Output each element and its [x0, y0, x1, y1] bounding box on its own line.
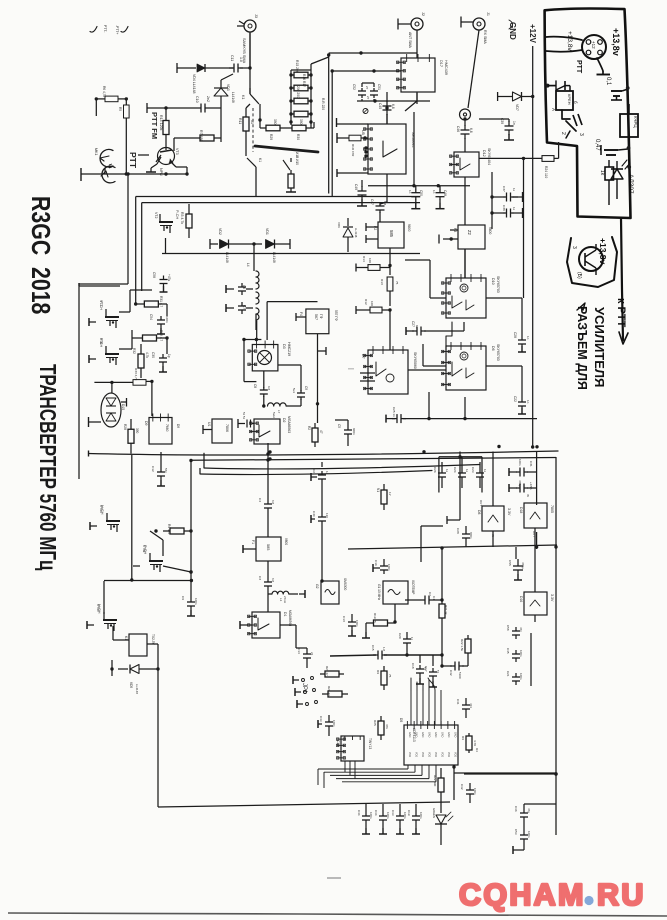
svg-text:C20: C20	[398, 633, 402, 639]
svg-text:C46: C46	[456, 126, 460, 132]
svg-text:ANT SMA: ANT SMA	[408, 32, 412, 49]
svg-text:SKY65060: SKY65060	[413, 352, 417, 369]
svg-text:CQHAM: CQHAM	[459, 878, 586, 912]
svg-text:УСИЛИТЕЛЯ: УСИЛИТЕЛЯ	[592, 307, 607, 387]
svg-text:C37: C37	[502, 186, 506, 192]
svg-text:R33 4,7k: R33 4,7k	[134, 368, 138, 381]
svg-text:390: 390	[135, 428, 139, 434]
svg-text:VDD: VDD	[434, 752, 437, 757]
svg-text:R39 4.7: R39 4.7	[159, 330, 163, 341]
svg-text:C30: C30	[151, 352, 155, 358]
svg-text:R25: R25	[373, 720, 377, 726]
svg-text:1У: 1У	[388, 492, 392, 496]
svg-text:100n: 100n	[527, 831, 531, 838]
svg-text:1n: 1n	[483, 469, 487, 473]
svg-text:L1: L1	[279, 598, 283, 602]
svg-text:100n: 100n	[355, 620, 359, 627]
svg-text:OUT: OUT	[479, 500, 483, 506]
svg-text:РАЗЪЕМ ДЛЯ: РАЗЪЕМ ДЛЯ	[575, 306, 589, 390]
svg-text:R15 200: R15 200	[295, 60, 299, 73]
svg-text:R3 4.7k: R3 4.7k	[180, 212, 184, 224]
svg-text:NPN: NPN	[159, 168, 163, 176]
svg-text:LL4148: LL4148	[225, 252, 229, 263]
svg-text:J1: J1	[486, 12, 490, 16]
svg-text:G2: G2	[315, 584, 319, 589]
svg-text:б: б	[573, 101, 578, 104]
svg-text:GREEN: GREEN	[432, 808, 436, 818]
svg-text:1n: 1n	[526, 336, 530, 340]
svg-text:C3: C3	[258, 576, 262, 580]
svg-text:+47µ: +47µ	[167, 274, 171, 281]
svg-text:C19: C19	[407, 810, 411, 816]
svg-text:C12: C12	[151, 466, 155, 472]
svg-text:SKY65404: SKY65404	[487, 148, 491, 165]
svg-text:R7 680: R7 680	[199, 130, 203, 142]
svg-text:C45: C45	[506, 648, 510, 654]
svg-text:C16: C16	[374, 560, 378, 566]
svg-text:ТРАНСВЕРТЕР 5760 МГц: ТРАНСВЕРТЕР 5760 МГц	[34, 364, 59, 571]
svg-text:IN: IN	[526, 494, 530, 497]
svg-text:ISOTEMP: ISOTEMP	[411, 580, 415, 594]
svg-text:P-CH: P-CH	[175, 210, 179, 220]
svg-text:0.1: 0.1	[432, 596, 436, 600]
svg-text:22: 22	[310, 652, 314, 656]
svg-text:585: 585	[389, 230, 394, 238]
svg-text:SMS300: SMS300	[343, 578, 347, 590]
svg-text:HMC439: HMC439	[444, 60, 448, 75]
svg-text:+13,8v: +13,8v	[611, 28, 621, 56]
svg-text:6.8: 6.8	[267, 386, 271, 391]
svg-text:51 51: 51 51	[242, 412, 246, 419]
svg-text:GND: GND	[441, 732, 444, 738]
svg-text:C36: C36	[514, 806, 518, 812]
svg-text:PTT: PTT	[128, 152, 138, 169]
svg-text:3: 3	[571, 246, 577, 249]
svg-text:GND: GND	[408, 732, 411, 738]
svg-text:47p: 47p	[519, 627, 523, 632]
svg-text:D9: D9	[144, 421, 148, 426]
svg-text:LL4148: LL4148	[354, 228, 358, 238]
svg-text:R24 110: R24 110	[544, 166, 548, 178]
svg-text:D6: D6	[491, 346, 495, 351]
svg-text:1n: 1n	[526, 400, 530, 404]
svg-text:R22 1.5k: R22 1.5k	[460, 639, 464, 652]
svg-text:D18: D18	[519, 507, 523, 513]
svg-text:1n: 1n	[408, 190, 412, 194]
svg-text:VT14: VT14	[99, 505, 103, 513]
svg-text:VDD: VDD	[408, 752, 411, 757]
svg-text:R19 75: R19 75	[373, 613, 377, 623]
svg-text:+C56: +C56	[529, 482, 533, 490]
svg-text:PTT FM: PTT FM	[150, 112, 159, 139]
svg-text:C53: C53	[514, 829, 518, 835]
svg-text:200 200: 200 200	[296, 86, 300, 98]
svg-text:C49: C49	[354, 184, 358, 190]
svg-text:557 ГФ: 557 ГФ	[334, 310, 338, 321]
svg-text:100n: 100n	[403, 812, 407, 819]
svg-text:Z2: Z2	[467, 230, 472, 236]
svg-text:J2: J2	[421, 12, 425, 16]
svg-text:VD4 LL4148: VD4 LL4148	[192, 74, 196, 94]
svg-text:L4: L4	[246, 263, 250, 267]
svg-text:GND: GND	[454, 732, 457, 738]
svg-text:F4: F4	[299, 312, 303, 316]
svg-text:C9: C9	[304, 386, 308, 390]
svg-text:R2: R2	[307, 426, 311, 430]
svg-text:6.8: 6.8	[271, 500, 275, 504]
svg-text:130: 130	[325, 513, 329, 518]
svg-text:L7: L7	[277, 410, 281, 414]
svg-text:C11: C11	[230, 55, 234, 61]
svg-text:R4 47k: R4 47k	[167, 524, 171, 535]
svg-text:D16: D16	[519, 596, 523, 602]
svg-text:R13: R13	[380, 279, 384, 285]
svg-text:100: 100	[370, 301, 374, 306]
svg-text:U1: U1	[207, 422, 211, 426]
svg-text:VT3: VT3	[175, 148, 179, 155]
svg-text:C18: C18	[411, 663, 415, 669]
svg-text:R11: R11	[238, 118, 242, 124]
svg-text:R31 4.7: R31 4.7	[159, 296, 163, 307]
svg-text:D8: D8	[477, 510, 481, 514]
svg-text:2n2: 2n2	[206, 96, 210, 102]
svg-text:1.0: 1.0	[239, 57, 243, 62]
svg-text:1n: 1n	[512, 188, 516, 192]
svg-text:C12: C12	[336, 740, 340, 746]
svg-text:GND: GND	[421, 732, 424, 738]
svg-text:27: 27	[365, 86, 369, 90]
svg-text:6.8: 6.8	[271, 578, 275, 582]
svg-text:47k: 47k	[385, 724, 389, 729]
svg-text:1n: 1n	[512, 121, 516, 125]
svg-text:3: 3	[578, 133, 584, 136]
svg-text:C28: C28	[513, 332, 517, 338]
svg-text:5н1: 5н1	[292, 388, 296, 393]
svg-text:C55: C55	[508, 560, 512, 566]
svg-text:100n: 100n	[332, 720, 336, 727]
svg-text:47: 47	[319, 430, 323, 434]
svg-text:1n: 1n	[415, 325, 419, 329]
svg-text:VDD: VDD	[421, 752, 424, 757]
svg-text:U5: U5	[361, 130, 365, 135]
svg-text:C32: C32	[460, 784, 464, 790]
svg-text:100n: 100n	[519, 650, 523, 657]
svg-text:1n: 1n	[410, 637, 414, 641]
svg-text:100n: 100n	[473, 788, 477, 795]
svg-text:ГФ: ГФ	[319, 314, 323, 319]
svg-text:D7: D7	[361, 354, 365, 359]
svg-text:27: 27	[366, 96, 370, 100]
svg-text:HMC219: HMC219	[287, 342, 291, 356]
svg-text:LL4148: LL4148	[135, 684, 139, 694]
svg-text:C2: C2	[312, 469, 316, 473]
svg-text:R3GC: R3GC	[25, 196, 55, 255]
svg-text:C7: C7	[428, 592, 432, 596]
svg-text:C8: C8	[253, 384, 257, 388]
svg-text:C34: C34	[374, 810, 378, 816]
svg-text:+12V: +12V	[528, 24, 537, 44]
svg-text:G1 13 MHz: G1 13 MHz	[377, 584, 381, 601]
svg-text:9800: 9800	[407, 224, 411, 232]
svg-text:7805: 7805	[550, 505, 554, 513]
svg-text:C17: C17	[424, 666, 428, 672]
svg-text:КЧРЦ: КЧРЦ	[633, 116, 638, 128]
svg-text:LL4148: LL4148	[272, 252, 276, 263]
svg-text:VDD: VDD	[454, 752, 457, 757]
svg-text:C27: C27	[411, 321, 415, 327]
svg-text:R28: R28	[123, 424, 127, 430]
svg-text:7806: 7806	[225, 424, 229, 432]
svg-text:1n: 1n	[445, 469, 449, 473]
svg-text:TINY13: TINY13	[368, 738, 372, 749]
svg-text:VDD: VDD	[447, 752, 450, 757]
svg-text:D4: D4	[475, 748, 479, 752]
svg-text:А: А	[551, 108, 556, 111]
svg-text:C23: C23	[471, 467, 475, 473]
svg-text:MGA86563: MGA86563	[288, 610, 292, 626]
svg-text:VD1: VD1	[265, 228, 269, 235]
svg-text:R14 120k: R14 120k	[159, 115, 163, 131]
svg-text:D9: D9	[176, 424, 180, 428]
svg-text:C15: C15	[371, 645, 375, 651]
svg-text:.PTT+: .PTT+	[115, 25, 119, 34]
svg-text:75: 75	[395, 281, 399, 285]
svg-text:K1: K1	[241, 95, 245, 99]
svg-text:600n: 600n	[469, 532, 473, 539]
svg-text:R1R 47R: R1R 47R	[351, 144, 355, 157]
svg-text:VD2: VD2	[218, 228, 222, 235]
svg-text:VD7: VD7	[515, 104, 519, 111]
svg-text:0,1: 0,1	[605, 77, 611, 86]
svg-text:C40: C40	[312, 511, 316, 517]
svg-text:D2: D2	[282, 418, 286, 423]
svg-text:VD6: VD6	[337, 222, 341, 228]
svg-text:к РТТ: к РТТ	[615, 298, 627, 327]
svg-text:C25 1n: C25 1n	[392, 407, 396, 417]
svg-text:R12: R12	[364, 299, 368, 305]
svg-text:(Б): (Б)	[576, 272, 582, 279]
svg-text:3.3V: 3.3V	[507, 508, 511, 516]
svg-text:GND: GND	[434, 732, 437, 738]
svg-text:C38: C38	[502, 205, 506, 211]
svg-text:D3: D3	[282, 344, 286, 349]
svg-text:47µ: 47µ	[527, 808, 531, 813]
svg-text:100n: 100n	[518, 459, 522, 466]
svg-text:D12: D12	[482, 150, 486, 157]
svg-text:1k: 1k	[599, 170, 605, 176]
svg-text:VT15: VT15	[96, 604, 100, 612]
svg-text:R27 47: R27 47	[325, 666, 329, 676]
svg-text:И1В И10: И1В И10	[295, 152, 299, 165]
svg-text:VT2: VT2	[154, 212, 158, 218]
svg-text:56p: 56p	[164, 468, 168, 473]
svg-text:RU: RU	[597, 878, 646, 912]
svg-text:D10: D10	[491, 278, 495, 285]
svg-text:100n: 100n	[419, 812, 423, 819]
svg-text:VD5: VD5	[129, 682, 133, 688]
svg-text:N1: N1	[376, 488, 380, 492]
svg-text:4.7k: 4.7k	[145, 352, 149, 358]
svg-text:R21 3k: R21 3k	[444, 605, 448, 615]
svg-text:7660: 7660	[165, 424, 169, 432]
svg-text:470µ: 470µ	[521, 562, 525, 569]
svg-text:75: 75	[388, 674, 392, 678]
svg-text:RX SMA: RX SMA	[483, 30, 487, 44]
svg-text:D1: D1	[283, 612, 287, 616]
svg-text:VDD: VDD	[428, 752, 431, 757]
svg-text:VDD: VDD	[415, 752, 418, 757]
svg-text:VT8: VT8	[99, 338, 103, 344]
svg-text:1p: 1p	[167, 354, 171, 358]
svg-text:R16 R17: R16 R17	[302, 74, 306, 87]
svg-text:C42: C42	[449, 670, 453, 676]
svg-text:2: 2	[560, 132, 566, 135]
svg-text:600n: 600n	[352, 428, 356, 435]
svg-text:C26: C26	[433, 467, 437, 473]
svg-text:9800: 9800	[284, 538, 288, 545]
svg-text:585: 585	[266, 544, 270, 550]
svg-text:4.7K: 4.7K	[473, 740, 477, 746]
svg-text:D5: D5	[399, 718, 403, 722]
svg-text:5мН: 5мН	[272, 412, 276, 418]
svg-text:C41: C41	[456, 699, 460, 705]
svg-text:C31: C31	[529, 461, 533, 467]
svg-text:5100: 5100	[458, 672, 462, 679]
svg-text:J3: J3	[254, 14, 258, 18]
svg-text:РТТ: РТТ	[575, 60, 582, 74]
svg-text:100n: 100n	[519, 673, 523, 680]
svg-text:R.R 220: R.R 220	[321, 98, 325, 110]
svg-text:C10: C10	[195, 96, 199, 103]
svg-text:+13,8v: +13,8v	[598, 238, 608, 265]
svg-text:9800: 9800	[488, 227, 492, 235]
svg-text:SKY65703: SKY65703	[496, 276, 500, 293]
svg-text:C22: C22	[513, 396, 517, 402]
svg-text:LL4148: LL4148	[231, 92, 235, 103]
svg-text:GND: GND	[428, 732, 431, 738]
svg-text:C52: C52	[352, 84, 356, 90]
svg-text:+12: +12	[591, 41, 596, 49]
svg-text:R6 4,7k: R6 4,7k	[102, 86, 106, 97]
svg-text:PTT-: PTT-	[103, 25, 107, 32]
svg-text:0,47: 0,47	[594, 139, 600, 151]
svg-text:C13: C13	[342, 616, 346, 622]
svg-text:C45: C45	[378, 103, 382, 109]
svg-text:100: 100	[368, 258, 372, 263]
svg-text:2018: 2018	[25, 267, 55, 314]
svg-text:R29: R29	[269, 134, 273, 140]
svg-text:C54: C54	[149, 314, 153, 320]
svg-text:3.3V: 3.3V	[550, 594, 554, 602]
svg-text:100n: 100n	[165, 316, 169, 323]
svg-text:1.8: 1.8	[382, 647, 386, 651]
svg-text:D15: D15	[121, 404, 125, 410]
svg-text:K1: K1	[258, 158, 262, 162]
svg-text:C58: C58	[152, 272, 156, 278]
svg-text:1n: 1n	[325, 471, 329, 475]
svg-text:27nH: 27nH	[283, 596, 287, 603]
svg-text:6.8: 6.8	[383, 201, 387, 206]
svg-text:C28: C28	[456, 528, 460, 534]
svg-text:413: 413	[469, 703, 473, 708]
svg-text:C9: C9	[181, 596, 185, 600]
svg-text:D17: D17	[439, 60, 443, 67]
svg-text:MK1: MK1	[94, 148, 98, 155]
svg-text:R14: R14	[362, 256, 366, 262]
svg-text:1n: 1n	[432, 190, 436, 194]
svg-text:C33: C33	[391, 810, 395, 816]
svg-text:VT7: VT7	[99, 300, 103, 306]
svg-text:F1: F1	[251, 540, 255, 544]
svg-text:C48: C48	[443, 190, 447, 196]
svg-text:VT11: VT11	[142, 545, 146, 553]
svg-text:R26 47: R26 47	[327, 686, 331, 696]
svg-text:C50: C50	[419, 190, 423, 196]
svg-text:C51: C51	[377, 84, 381, 90]
svg-text:6.8: 6.8	[469, 128, 473, 133]
svg-text:100n: 100n	[386, 812, 390, 819]
svg-text:6.8: 6.8	[391, 104, 395, 109]
svg-text:C43: C43	[319, 716, 323, 722]
svg-text:C5: C5	[337, 424, 341, 428]
svg-text:R9: R9	[461, 736, 465, 740]
svg-text:C44: C44	[357, 810, 361, 816]
svg-text:R9: R9	[376, 670, 380, 674]
svg-text:C4: C4	[258, 498, 262, 502]
svg-text:GND: GND	[447, 732, 450, 738]
svg-text:C21: C21	[506, 671, 510, 677]
svg-text:100n: 100n	[387, 564, 391, 571]
svg-text:C24: C24	[453, 467, 457, 473]
svg-text:390: 390	[299, 119, 303, 125]
svg-text:1n: 1n	[512, 207, 516, 211]
svg-text:VD3: VD3	[226, 84, 230, 91]
svg-text:C58: C58	[506, 625, 510, 631]
svg-text:100n: 100n	[369, 812, 373, 819]
svg-text:51: 51	[250, 120, 254, 124]
svg-text:АЛ307: АЛ307	[627, 174, 634, 194]
svg-text:390: 390	[273, 119, 277, 125]
svg-text:VDD: VDD	[441, 752, 444, 757]
svg-text:100n: 100n	[194, 598, 198, 605]
svg-text:MGA86563: MGA86563	[287, 416, 291, 433]
svg-text:567: 567	[314, 314, 318, 320]
svg-text:GND: GND	[415, 732, 418, 738]
svg-text:R30: R30	[296, 134, 300, 140]
svg-text:1n: 1n	[465, 469, 469, 473]
svg-text:51: 51	[436, 670, 440, 674]
svg-text:+13,8v: +13,8v	[566, 31, 573, 51]
svg-text:C14: C14	[297, 648, 301, 654]
svg-text:SKY65703: SKY65703	[496, 344, 500, 361]
svg-text:КРЕН: КРЕН	[567, 94, 572, 105]
svg-text:R5: R5	[118, 107, 122, 111]
svg-text:470µ: 470µ	[518, 480, 522, 487]
